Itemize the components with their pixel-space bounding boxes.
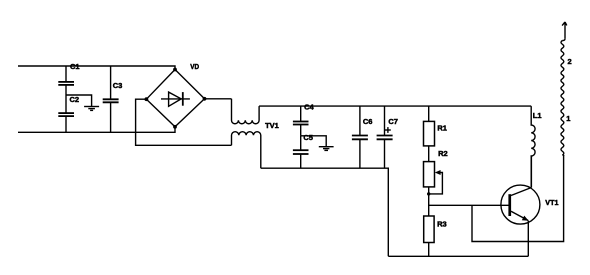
svg-text:TV1: TV1 <box>265 121 279 130</box>
wire bottom rail <box>388 255 528 257</box>
wire resistor column top <box>428 106 430 121</box>
wire bridge DC plus <box>205 98 232 100</box>
wire coil bottom lead <box>562 155 563 156</box>
capacitor C5 <box>293 133 313 168</box>
svg-text:R2: R2 <box>438 149 448 158</box>
capacitor C1 <box>58 62 79 95</box>
wire bottom AC input <box>18 127 175 133</box>
ground (input filter) <box>84 107 99 111</box>
capacitor C3 <box>103 66 123 132</box>
wire mid ground rail <box>261 168 389 256</box>
svg-text:C6: C6 <box>363 117 373 126</box>
svg-text:C3: C3 <box>113 81 123 90</box>
wire bridge DC minus loop <box>136 99 232 145</box>
svg-text:VD: VD <box>190 62 199 71</box>
wire R2 to R3 <box>428 187 430 216</box>
antenna arrow <box>562 22 567 41</box>
wire R3 to bottom rail <box>428 243 430 257</box>
svg-text:C2: C2 <box>70 95 80 104</box>
plus sign of C7 <box>385 127 391 133</box>
capacitor C2 <box>58 95 79 132</box>
svg-text:C1: C1 <box>70 62 80 71</box>
svg-text:VT1: VT1 <box>545 198 558 207</box>
wire feedback from coil to base <box>472 155 564 242</box>
transistor VT1 <box>501 185 559 224</box>
R2 wiper arrow and wire <box>427 170 442 196</box>
svg-text:C4: C4 <box>304 103 314 112</box>
svg-text:2: 2 <box>568 57 572 66</box>
svg-text:L1: L1 <box>533 111 542 120</box>
capacitor C4 <box>293 103 315 136</box>
ground (smoothing filter) <box>319 147 334 151</box>
capacitor C7 (polarized) <box>377 106 398 168</box>
resistor R1 <box>424 121 447 145</box>
wire C4/C5 midpoint to ground <box>301 136 327 147</box>
transformer TV1 secondary winding <box>232 132 261 169</box>
wire emitter to bottom rail <box>527 221 529 257</box>
wire C1/C2 midpoint to ground <box>66 95 92 106</box>
diode inside bridge <box>161 92 190 106</box>
svg-text:1: 1 <box>566 114 570 123</box>
wire top DC rail <box>259 105 531 107</box>
resistor R3 <box>424 216 447 243</box>
inductor L1 <box>531 106 541 187</box>
bridge rectifier VD <box>145 62 207 129</box>
svg-text:R3: R3 <box>437 219 447 228</box>
wire base line <box>429 204 509 206</box>
svg-text:C7: C7 <box>388 117 398 126</box>
svg-text:C5: C5 <box>303 133 313 142</box>
wire R1 to R2 <box>428 146 430 162</box>
transformer TV1 primary winding <box>232 99 260 124</box>
antenna coil winding <box>561 41 564 156</box>
wire top AC input <box>18 66 175 70</box>
svg-text:R1: R1 <box>437 124 447 133</box>
capacitor C6 <box>352 106 373 168</box>
wire collector to L1 <box>530 156 532 188</box>
resistor R2 (adjustable) <box>424 149 448 187</box>
